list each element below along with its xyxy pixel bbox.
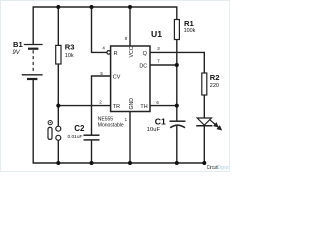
LED arrows [210, 120, 222, 130]
svg-text:R: R [114, 51, 118, 57]
wire reset pin 4 drop [92, 7, 107, 52]
wire pushbutton to bottom rail [57, 140, 59, 163]
svg-text:10uF: 10uF [147, 127, 161, 133]
resistor R1 [174, 20, 179, 40]
resistor R2 [202, 73, 207, 95]
wire R3 to TR junction [57, 64, 59, 126]
svg-text:R1: R1 [184, 19, 194, 28]
capacitor C2 [84, 135, 100, 140]
svg-text:TH: TH [140, 104, 147, 110]
svg-text:9V: 9V [12, 50, 20, 56]
svg-text:100k: 100k [184, 28, 196, 34]
wire C2 to bottom rail [91, 140, 93, 163]
svg-text:VCC: VCC [129, 46, 135, 57]
wire R2 to LED [203, 95, 205, 118]
node bottom rail / GND [128, 161, 132, 165]
node bottom rail / LED end [202, 161, 206, 165]
wire bottom rail [33, 79, 204, 163]
junction node dots [56, 5, 206, 165]
node TR / R3 / button [56, 104, 60, 108]
wire R3 drop from top rail [57, 7, 59, 45]
svg-text:GND: GND [129, 98, 135, 110]
svg-text:Monostable: Monostable [98, 122, 124, 128]
wire Q pin 3 to R2 [150, 52, 204, 73]
svg-text:R2: R2 [210, 73, 220, 82]
wire TH pin 6 [150, 105, 177, 107]
svg-text:CV: CV [113, 75, 121, 81]
node bottom rail / C2 [90, 161, 94, 165]
wire LED to bottom rail [203, 126, 205, 163]
battery B1 [22, 45, 43, 80]
reset bubble pin 4 [107, 51, 111, 55]
svg-text:CircuitDigest: CircuitDigest [207, 165, 229, 171]
svg-text:R3: R3 [65, 42, 75, 51]
node top rail / VCC [128, 5, 132, 9]
svg-text:TR: TR [113, 104, 120, 110]
wire top rail [33, 7, 177, 45]
wire VCC pin 8 [129, 7, 131, 46]
svg-text:C1: C1 [155, 116, 166, 126]
resistor R3 [56, 45, 61, 64]
LED D1 [196, 118, 212, 126]
svg-text:220: 220 [210, 83, 219, 89]
node bottom rail / C1 [175, 161, 179, 165]
wire CV pin 5 to C2 [92, 76, 111, 135]
node DC / R1 [175, 63, 179, 67]
wire R1 to C1 node [176, 40, 178, 122]
svg-text:U1: U1 [151, 29, 162, 39]
svg-text:C2: C2 [74, 124, 85, 133]
wire C1 to bottom rail [176, 125, 178, 163]
svg-text:10k: 10k [65, 53, 74, 59]
pushbutton S1 [48, 121, 61, 141]
op-amp U1 555 timer box [111, 46, 150, 112]
svg-text:Q: Q [143, 51, 147, 57]
node top rail / pin4 wire [90, 5, 94, 9]
capacitor C1 polarized [170, 121, 186, 128]
svg-text:0.01uF: 0.01uF [68, 134, 83, 140]
node bottom rail / button [56, 161, 60, 165]
svg-text:DC: DC [139, 64, 147, 70]
wire GND pin 1 [129, 112, 131, 164]
wire DC pin 7 [150, 64, 177, 66]
svg-text:B1: B1 [13, 40, 23, 49]
wire TR pin 2 [58, 105, 110, 107]
node TH / R1 / C1 [175, 104, 179, 108]
node top rail / R3 [56, 5, 60, 9]
